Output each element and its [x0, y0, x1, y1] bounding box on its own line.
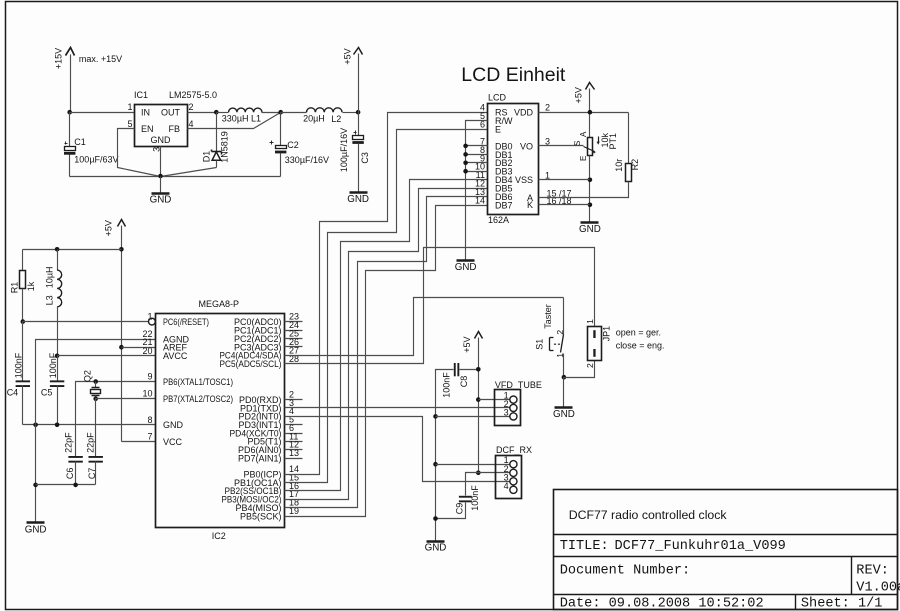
svg-text:Sheet: 1/1: Sheet: 1/1 — [801, 596, 883, 611]
wire IC1 OUT to node OUT — [188, 112, 217, 114]
potentiometer PT1 10k — [539, 131, 619, 161]
title block REV cell — [856, 564, 900, 596]
label open = ger. — [616, 328, 661, 338]
svg-text:6: 6 — [480, 120, 485, 130]
svg-text:S1: S1 — [535, 339, 545, 350]
diode D1 1N5819 — [202, 113, 230, 168]
svg-text:DCF77 radio controlled clock: DCF77 radio controlled clock — [569, 508, 728, 522]
IC2 pin 21 AREF label — [142, 337, 187, 352]
svg-text:14: 14 — [475, 196, 485, 206]
LCD pin 10 DB3 label — [475, 162, 513, 177]
IC2 pin 19 PB5(SCK) label — [240, 506, 299, 521]
title block TITLE row — [560, 539, 786, 554]
IC2 pin 1 PC6(/RESET) label — [147, 312, 209, 327]
svg-text:10µH: 10µH — [44, 266, 54, 288]
svg-text:1: 1 — [585, 319, 595, 324]
svg-text:OUT: OUT — [161, 108, 181, 118]
inductor L2 20uH — [281, 108, 359, 124]
svg-text:330µH L1: 330µH L1 — [222, 114, 261, 124]
wire XTAL1 from IC2 pin 9 to C6 — [76, 382, 156, 457]
svg-text:DCF77_Funkuhr01a_V099: DCF77_Funkuhr01a_V099 — [615, 539, 786, 554]
wire LCD VDD to +5V and R2 — [539, 112, 629, 114]
op-amp/regulator IC1 LM2575-5.0 box — [134, 90, 217, 147]
wire IC1 EN to ground funnel — [118, 129, 161, 177]
+5V supply symbol (regulator output) — [342, 48, 362, 113]
svg-text:C3: C3 — [360, 152, 370, 164]
svg-text:VFD_TUBE: VFD_TUBE — [495, 380, 542, 390]
wire RESET to IC2 PC6 bubble — [23, 321, 149, 323]
capacitor C6 22pF — [63, 432, 82, 485]
node DCF pin2 +5V junction — [476, 471, 481, 476]
capacitor C5 100nF — [41, 352, 64, 424]
node AREF junction — [119, 345, 124, 350]
svg-text:C5: C5 — [41, 388, 53, 398]
IC2 pin 16 PB2(SS/OC1B) label — [225, 481, 300, 496]
svg-text:162A: 162A — [488, 215, 509, 225]
svg-text:E: E — [495, 125, 501, 135]
svg-text:3: 3 — [504, 407, 509, 417]
svg-text:GND: GND — [579, 224, 601, 235]
svg-text:PB6(XTAL1/TOSC1): PB6(XTAL1/TOSC1) — [163, 377, 233, 387]
LCD pin 6 E label — [480, 120, 501, 135]
node VFD pin1 +5V junction — [476, 397, 481, 402]
IC2 pin 15 PB1(OC1A) label — [234, 472, 299, 487]
svg-text:REV:: REV: — [856, 564, 889, 579]
svg-text:GND: GND — [150, 195, 172, 206]
IC2 pin 25 PC2(ADC2) label — [234, 328, 303, 343]
wire PB2 to LCD DB4 — [285, 180, 488, 491]
svg-text:100nF: 100nF — [48, 352, 58, 378]
svg-text:C4: C4 — [7, 388, 19, 398]
node VSS junction — [588, 178, 593, 183]
node +5V rail junction — [119, 247, 124, 252]
svg-text:1: 1 — [545, 170, 550, 180]
title block document number row — [560, 564, 691, 579]
inductor L1 330uH — [217, 108, 281, 124]
svg-text:EN: EN — [141, 124, 154, 134]
resistor R2 10r backlight — [539, 113, 641, 198]
svg-text:+5V: +5V — [574, 87, 584, 103]
LCD pin K label 16/18 — [527, 196, 572, 210]
LCD pin 1 VSS label — [515, 170, 550, 185]
svg-text:PB5(SCK): PB5(SCK) — [240, 512, 282, 522]
node DB0 ground junction — [463, 144, 468, 149]
svg-text:LM2575-5.0: LM2575-5.0 — [169, 90, 217, 100]
svg-text:Q2: Q2 — [83, 370, 93, 382]
node C6 bottom junction — [73, 483, 78, 488]
LCD pin 12 DB5 label — [475, 179, 513, 194]
IC2 pin 8 GND label — [147, 415, 183, 430]
node +5V output junction — [356, 110, 361, 115]
+5V supply symbol at connectors — [462, 332, 483, 473]
IC2 pin 4 PD2(INT0) label — [238, 406, 294, 421]
node C8 +5V junction — [476, 367, 481, 372]
svg-text:max. +15V: max. +15V — [79, 54, 122, 64]
wire PB0 to LCD RS — [285, 113, 488, 475]
svg-text:10r: 10r — [614, 159, 624, 172]
node LX junction (L1/L2/C2/FB) — [278, 110, 283, 115]
wire LCD VSS to rail — [539, 179, 590, 181]
svg-text:GND: GND — [425, 543, 447, 554]
IC2 pin 14 PB0(ICP) label — [243, 464, 299, 479]
node power ground junction — [158, 174, 163, 179]
svg-text:4: 4 — [189, 119, 194, 129]
svg-text:JP1: JP1 — [602, 326, 612, 342]
svg-text:LCD Einheit: LCD Einheit — [461, 64, 566, 86]
svg-text:C2: C2 — [287, 140, 299, 150]
wire D1 anode to ground funnel — [161, 168, 217, 177]
node OUT junction — [214, 110, 219, 115]
svg-text:VCC: VCC — [163, 437, 183, 447]
svg-text:1: 1 — [555, 353, 565, 358]
IC2 pin 22 AGND label — [142, 329, 189, 344]
svg-text:22pF: 22pF — [63, 432, 73, 453]
wire PB4 to LCD DB6 — [285, 197, 488, 508]
svg-text:close = eng.: close = eng. — [616, 340, 665, 350]
capacitor C3 100uF/16V — [339, 113, 370, 193]
+15V supply symbol — [53, 48, 74, 113]
svg-text:IC1: IC1 — [134, 90, 148, 100]
svg-text:100µF/16V: 100µF/16V — [339, 128, 349, 172]
ground symbol power supply — [150, 177, 172, 206]
node C6/C7 ground junction — [33, 483, 38, 488]
IC2 pin 10 PB7(XTAL2/TOSC2) label — [142, 389, 233, 404]
node C5 on ground rail — [55, 423, 60, 428]
resistor R1 1k — [9, 250, 35, 322]
wire PC5 to jumper JP1 — [285, 248, 595, 364]
capacitor C9 100nF — [436, 485, 481, 519]
LCD pin 4 RS label — [480, 103, 508, 118]
svg-text:PB7(XTAL2/TOSC2): PB7(XTAL2/TOSC2) — [163, 394, 233, 404]
wire +5V to VFD_TUBE pin 1 — [479, 399, 510, 401]
title block date row — [560, 596, 764, 611]
wire C1 bottom rail to C2 bottom (ground rail) — [70, 176, 281, 178]
LCD pin 9 DB2 label — [480, 153, 513, 168]
ground symbol below LCD — [455, 261, 477, 273]
node DB3 ground junction — [463, 169, 468, 174]
svg-text:Document Number:: Document Number: — [560, 564, 691, 579]
inversion bubble PC6/RESET — [149, 318, 156, 325]
capacitor C2 330uF/16V — [270, 113, 330, 177]
pin number 5 IC1 — [127, 119, 132, 129]
crystal Q2 — [83, 370, 101, 398]
svg-text:GND: GND — [553, 409, 575, 420]
IC2 pin 24 PC1(ADC1) label — [234, 320, 303, 335]
svg-text:7: 7 — [147, 431, 152, 441]
svg-text:GND: GND — [163, 420, 184, 430]
svg-text:LCD: LCD — [488, 93, 507, 103]
node K junction — [588, 203, 593, 208]
wire VCC to IC2 pin 7 — [122, 441, 156, 443]
wire ground to VFD_TUBE pin 3 — [436, 416, 510, 418]
pin number 2 IC1 — [189, 102, 194, 112]
pin number 4 IC1 — [189, 119, 194, 129]
IC2 pin 5 PD3(INT1) label — [238, 415, 302, 430]
LCD pin 8 DB1 label — [480, 145, 513, 160]
svg-text:R2: R2 — [630, 159, 640, 171]
svg-text:L3: L3 — [44, 295, 54, 305]
LCD pin A label 15/17 — [527, 188, 572, 203]
svg-text:22pF: 22pF — [86, 432, 96, 453]
svg-text:+15V: +15V — [53, 48, 63, 69]
svg-text:10: 10 — [142, 389, 152, 399]
IC2 pin 9 PB6(XTAL1/TOSC1) label — [147, 372, 233, 387]
wire PT1 bottom to VSS rail — [589, 156, 591, 223]
svg-text:+5V: +5V — [462, 336, 472, 352]
LCD pin 7 DB0 label — [480, 136, 513, 151]
IC2 pin 28 PC5(ADC5/SCL) label — [220, 354, 300, 369]
svg-text:IN: IN — [141, 108, 150, 118]
microcontroller IC2 MEGA8-P box — [156, 299, 285, 541]
title block sheet cell — [801, 596, 883, 611]
label close = eng. — [616, 340, 665, 350]
LCD module box 162A — [488, 93, 539, 225]
svg-text:100nF: 100nF — [470, 485, 480, 511]
IC2 pin 17 PB3(MOSI/OC2) label — [222, 489, 300, 504]
IC2 pin 26 PC3(ADC3) label — [234, 337, 303, 352]
LCD pin 11 DB4 label — [476, 170, 513, 185]
wire PC4 to switch S1 — [285, 298, 564, 356]
wire S1 to JP1 pin 2 — [564, 361, 595, 378]
node ground/C9 junction — [433, 516, 438, 521]
+5V supply symbol at IC2 — [104, 220, 126, 442]
wire C6/C7 bottoms to ground line — [36, 484, 96, 486]
node VIN junction — [67, 110, 72, 115]
svg-text:9: 9 — [147, 372, 152, 382]
svg-text:100nF: 100nF — [441, 372, 451, 398]
capacitor C8 100nF — [436, 363, 479, 542]
wire VIN to IC1 IN — [70, 112, 135, 114]
svg-text:GND: GND — [151, 135, 172, 145]
ground symbol LCD right — [579, 223, 601, 236]
svg-text:+5V: +5V — [104, 220, 114, 236]
inductor L3 10uH — [44, 250, 61, 356]
svg-text:1: 1 — [147, 312, 152, 322]
jumper JP1 — [585, 319, 612, 368]
wire IC1 GND pin to ground node — [160, 147, 162, 177]
ground symbol below connectors — [425, 542, 447, 554]
node S1/JP1 ground junction — [562, 375, 567, 380]
IC2 pin 12 PD6(AIN0) label — [238, 440, 303, 455]
svg-text:V1.00a: V1.00a — [856, 581, 900, 596]
+5V supply symbol at LCD — [574, 83, 595, 138]
svg-text:GND: GND — [25, 524, 47, 535]
svg-text:1N5819: 1N5819 — [220, 131, 230, 163]
wire XTAL2 from IC2 pin 10 to C7 — [96, 399, 156, 457]
svg-text:MEGA8-P: MEGA8-P — [199, 299, 240, 309]
svg-text:2: 2 — [545, 103, 550, 113]
svg-text:C6: C6 — [65, 468, 75, 480]
IC2 pin 7 VCC label — [147, 431, 182, 446]
node VDD junction — [588, 110, 593, 115]
capacitor C7 22pF — [86, 432, 103, 485]
svg-text:Taster: Taster — [543, 304, 553, 329]
wire AVCC to IC2 — [58, 355, 156, 357]
wire +5V rail to R1 and L3 tops — [23, 249, 122, 251]
svg-text:VSS: VSS — [515, 175, 533, 185]
svg-text:100nF: 100nF — [14, 352, 24, 378]
LCD pin 13 DB6 label — [475, 187, 513, 202]
svg-text:D1: D1 — [202, 151, 212, 163]
svg-text:open = ger.: open = ger. — [616, 328, 661, 338]
node DB2 ground junction — [463, 161, 468, 166]
ground symbol below C3 — [347, 193, 369, 206]
node crystal bottom junction — [93, 396, 98, 401]
wire IC1 FB to output node — [188, 113, 281, 129]
svg-text:VO: VO — [520, 141, 533, 151]
svg-text:PC5(ADC5/SCL): PC5(ADC5/SCL) — [220, 359, 282, 369]
svg-text:S: S — [573, 141, 582, 146]
LCD pin 3 VO label — [520, 136, 550, 151]
svg-text:DCF_RX: DCF_RX — [496, 445, 532, 455]
ground symbol below S1 — [553, 378, 575, 421]
node AVCC junction — [55, 354, 60, 359]
wire AGND from IC2 pin 22 — [36, 340, 156, 523]
svg-text:E: E — [579, 156, 588, 161]
ground symbol at IC2 left — [25, 523, 47, 536]
svg-text:C1: C1 — [74, 137, 86, 147]
svg-text:C8: C8 — [459, 376, 469, 388]
svg-text:2: 2 — [555, 330, 565, 335]
svg-text:3: 3 — [545, 136, 550, 146]
node DCF pin1 ground junction — [433, 462, 438, 467]
IC2 pin 23 PC0(ADC0) label — [234, 312, 303, 327]
IC2 pin 18 PB4(MISO) label — [235, 498, 299, 513]
pin number 3 IC1 — [152, 147, 162, 152]
wire AREF to IC2 — [122, 347, 156, 349]
IC2 pin 11 PD5(T1) label — [247, 431, 302, 446]
wire PB5 to LCD DB7 — [285, 206, 488, 517]
svg-text:4: 4 — [504, 481, 509, 491]
svg-text:GND: GND — [455, 262, 477, 273]
wire LCD R/W and DB0-DB3 to ground — [466, 121, 488, 261]
svg-text:2: 2 — [585, 363, 595, 368]
wire PD2 INT0 to DCF_RX pin 3 — [285, 417, 510, 482]
svg-text:C9: C9 — [455, 503, 465, 515]
IC2 pin 20 AVCC label — [142, 346, 187, 361]
node RESET junction — [21, 319, 26, 324]
svg-text:Date: 09.08.2008 10:52:02: Date: 09.08.2008 10:52:02 — [560, 596, 764, 611]
IC2 pin 27 PC4(ADC4/SDA) label — [220, 345, 300, 360]
svg-text:1: 1 — [127, 102, 132, 112]
svg-text:2: 2 — [189, 102, 194, 112]
connector DCF_RX — [496, 445, 533, 499]
connector VFD_TUBE — [495, 380, 542, 426]
title block project name — [569, 508, 728, 522]
svg-text:C7: C7 — [87, 468, 97, 480]
wire PB1 to LCD E — [285, 130, 488, 483]
node VFD pin3 ground junction — [433, 414, 438, 419]
IC2 pin 2 PD0(RXD) label — [239, 390, 303, 405]
svg-text:TITLE:: TITLE: — [560, 539, 609, 554]
IC2 pin 6 PD4(XCK/T0) label — [230, 423, 303, 438]
svg-text:PD7(AIN1): PD7(AIN1) — [238, 453, 282, 463]
svg-text:VDD: VDD — [514, 108, 534, 118]
wire LCD K to ground rail — [539, 204, 590, 206]
LCD pin 14 DB7 label — [475, 196, 513, 211]
section title LCD Einheit — [461, 64, 566, 86]
title block outline — [554, 490, 898, 610]
capacitor C1 100uF/63V — [64, 113, 119, 177]
svg-text:5: 5 — [127, 119, 132, 129]
switch S1 Taster — [535, 298, 565, 378]
wire ground to DCF_RX pin 1 — [436, 464, 510, 466]
wire PD1 TXD to VFD_TUBE pin 2 — [285, 407, 510, 409]
wire IC2 GND pin 8 rail — [23, 424, 156, 426]
svg-text:PT1: PT1 — [608, 133, 618, 150]
svg-text:13: 13 — [289, 448, 299, 458]
svg-text:AVCC: AVCC — [163, 351, 188, 361]
pin number 1 IC1 — [127, 102, 132, 112]
node crystal top junction — [93, 379, 98, 384]
IC2 pin 13 PD7(AIN1) label — [238, 448, 303, 463]
svg-text:K: K — [527, 200, 533, 210]
svg-text:IC2: IC2 — [212, 531, 226, 541]
svg-text:20µH: 20µH — [303, 114, 325, 124]
LCD pin 5 R/W label — [480, 111, 513, 126]
svg-text:8: 8 — [147, 415, 152, 425]
svg-text:A: A — [579, 131, 588, 137]
wire PB3 to LCD DB5 — [285, 189, 488, 500]
svg-text:L2: L2 — [331, 114, 341, 124]
svg-text:PC6(/RESET): PC6(/RESET) — [163, 317, 209, 327]
wire +5V to DCF_RX pin 2 and C9 tap — [466, 473, 510, 496]
svg-text:20: 20 — [142, 346, 152, 356]
svg-text:GND: GND — [347, 194, 369, 205]
svg-text:+5V: +5V — [342, 48, 352, 64]
node AGND on ground rail — [33, 423, 38, 428]
svg-text:R1: R1 — [9, 282, 19, 294]
label max. +15V — [79, 54, 122, 64]
svg-text:DB7: DB7 — [495, 200, 513, 210]
svg-text:1k: 1k — [26, 281, 36, 291]
node DB1 ground junction — [463, 152, 468, 157]
svg-text:FB: FB — [168, 124, 180, 134]
node L3 top junction — [55, 247, 60, 252]
svg-text:100µF/63V: 100µF/63V — [74, 154, 118, 164]
svg-text:330µF/16V: 330µF/16V — [285, 155, 329, 165]
capacitor C4 100nF — [7, 322, 30, 425]
IC2 pin 3 PD1(TXD) label — [240, 398, 294, 413]
LCD pin 2 VDD label — [514, 103, 550, 118]
